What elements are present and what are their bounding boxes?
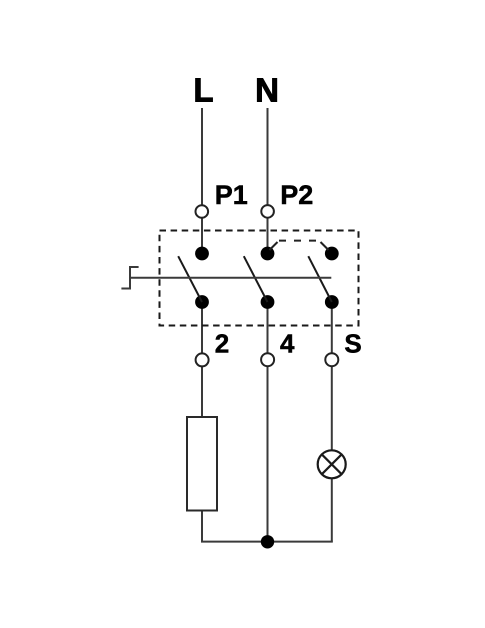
svg-text:L: L [193, 72, 213, 109]
svg-text:P1: P1 [215, 180, 248, 210]
svg-text:S: S [344, 328, 361, 358]
svg-text:2: 2 [215, 328, 229, 358]
svg-text:N: N [255, 72, 279, 109]
svg-text:4: 4 [280, 328, 295, 358]
svg-text:P2: P2 [280, 180, 313, 210]
